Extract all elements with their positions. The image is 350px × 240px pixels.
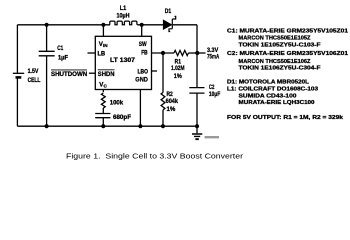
- svg-text:FOR 5V OUTPUT: R1 = 1M, R2 = 3: FOR 5V OUTPUT: R1 = 1M, R2 = 329k: [227, 115, 344, 121]
- label SHUTDOWN input: [51, 70, 88, 78]
- inductor L1: [110, 21, 137, 25]
- wire L1 to D1: [137, 24, 163, 26]
- svg-text:C1: MURATA-ERIE GRM235Y5V105Z0: C1: MURATA-ERIE GRM235Y5V105Z01: [227, 28, 348, 34]
- svg-text:100k: 100k: [110, 99, 124, 106]
- svg-text:FB: FB: [141, 50, 148, 57]
- svg-text:1%: 1%: [167, 106, 176, 113]
- wire 680pF to rail: [102, 118, 104, 127]
- wire top rail left: [17, 24, 110, 26]
- node FB junction: [161, 51, 165, 55]
- label R2 value: [166, 91, 179, 113]
- battery 1.5V CELL: [13, 73, 24, 77]
- wire D1 to output corner: [173, 24, 197, 26]
- svg-text:SUMIDA CD43-100: SUMIDA CD43-100: [239, 94, 297, 100]
- gray dash mark: [205, 136, 219, 138]
- label L1 value: [117, 5, 130, 19]
- diode D1: [163, 16, 175, 31]
- junction node dots bottom rail: [45, 124, 200, 128]
- svg-text:SHUTDOWN: SHUTDOWN: [51, 71, 88, 78]
- wire VIN stub: [102, 25, 104, 37]
- op-amp U1 IC box LT1307: [95, 36, 151, 89]
- wire SHDN stub: [89, 72, 95, 74]
- svg-text:C1: C1: [57, 45, 63, 52]
- ground pad blob: [195, 138, 198, 140]
- wire GND pin drop: [139, 90, 141, 127]
- svg-text:SHDN: SHDN: [98, 71, 115, 78]
- svg-text:TOKIN 1E106ZY5U-C304-F: TOKIN 1E106ZY5U-C304-F: [239, 66, 322, 72]
- wire FB net: [152, 52, 175, 54]
- wire left rail lower: [16, 77, 18, 126]
- wire output stub: [197, 52, 206, 54]
- svg-text:LBO: LBO: [138, 68, 149, 75]
- svg-text:L1: L1: [120, 5, 127, 12]
- resistor 100k: [101, 93, 105, 108]
- label battery value: [28, 68, 41, 84]
- svg-text:1µF: 1µF: [58, 54, 68, 61]
- svg-text:L1: COILCRAFT DO1608C-103: L1: COILCRAFT DO1608C-103: [227, 87, 318, 93]
- wire R2 lower: [162, 110, 164, 126]
- wire C1 branch upper: [46, 25, 48, 51]
- svg-text:Figure 1. Single Cell to 3.3V: Figure 1. Single Cell to 3.3V Boost Conv…: [66, 152, 244, 161]
- svg-text:VC: VC: [99, 82, 107, 89]
- svg-text:C2: C2: [209, 84, 215, 91]
- svg-text:LB: LB: [98, 50, 106, 57]
- resistor R2: [161, 93, 165, 110]
- wire SW stub: [141, 25, 143, 37]
- svg-text:75mA: 75mA: [207, 54, 220, 61]
- svg-text:1%: 1%: [174, 73, 182, 80]
- wire 100k to 680pF: [102, 108, 104, 113]
- svg-text:10µH: 10µH: [117, 12, 130, 19]
- capacitor C2: [189, 88, 204, 94]
- wire R1 to output node: [188, 52, 197, 54]
- capacitor 680pF: [95, 114, 110, 118]
- svg-text:GND: GND: [135, 77, 148, 84]
- svg-text:SW: SW: [139, 41, 147, 48]
- label output 3.3V 75mA: [207, 47, 220, 61]
- ground: [192, 134, 202, 136]
- wire VC pin drop: [102, 90, 104, 93]
- resistor R1: [174, 50, 188, 55]
- pin VIN label: [99, 41, 108, 48]
- note parts list: [227, 28, 348, 106]
- label C1 value: [57, 45, 68, 61]
- svg-text:LT 1307: LT 1307: [110, 57, 136, 64]
- svg-text:C2: MURATA-ERIE GRM235Y5V106Z0: C2: MURATA-ERIE GRM235Y5V106Z01: [227, 51, 348, 57]
- svg-text:VIN: VIN: [99, 41, 108, 48]
- label R1 value: [171, 59, 184, 80]
- capacitor C1: [39, 51, 55, 56]
- svg-text:1.5V: 1.5V: [28, 68, 40, 75]
- svg-text:MARCON THCS50E1E106Z: MARCON THCS50E1E106Z: [239, 59, 312, 65]
- wire left rail upper: [16, 25, 18, 73]
- wire LB stub: [88, 52, 96, 54]
- wire LBO stub: [152, 70, 158, 72]
- svg-text:604k: 604k: [166, 98, 179, 105]
- svg-text:R2: R2: [167, 91, 174, 98]
- svg-text:1.02M: 1.02M: [171, 65, 184, 72]
- junction node dots top rail: [45, 23, 144, 27]
- svg-text:MARCON THCS50E1E105Z: MARCON THCS50E1E105Z: [239, 35, 312, 41]
- svg-text:CELL: CELL: [28, 77, 41, 84]
- wire R2 upper: [162, 53, 164, 93]
- svg-text:D1: D1: [165, 8, 172, 15]
- label C2 value: [209, 84, 221, 98]
- wire output rail upper: [196, 25, 198, 88]
- svg-text:MURATA-ERIE LQH3C100: MURATA-ERIE LQH3C100: [239, 100, 315, 106]
- svg-text:TOKIN 1E105ZY5U-C103-F: TOKIN 1E105ZY5U-C103-F: [239, 43, 322, 49]
- wire bottom rail: [17, 125, 197, 127]
- svg-text:680pF: 680pF: [113, 114, 131, 121]
- wire C1 branch lower: [46, 56, 48, 126]
- wire output rail lower: [196, 93, 198, 126]
- svg-text:10µF: 10µF: [209, 91, 221, 98]
- svg-text:D1: MOTOROLA MBR0520L: D1: MOTOROLA MBR0520L: [227, 80, 310, 86]
- node output junction: [195, 51, 199, 55]
- pin SHDN label: [98, 70, 115, 78]
- wire ground stem: [196, 126, 198, 133]
